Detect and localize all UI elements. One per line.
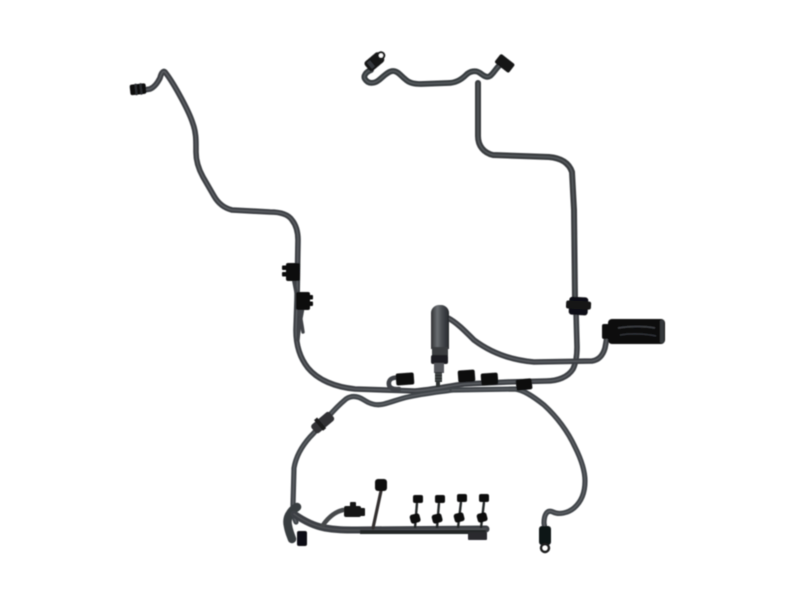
wire: T-branch vertical down from top-center — [478, 83, 575, 300]
wire: top-center horizontal tube — [364, 65, 500, 84]
connector: top-left black end cap — [129, 83, 146, 96]
clip: center clip C — [481, 372, 499, 385]
clip: small black clip below elbow — [297, 531, 307, 546]
wire: short crossing stub near clips — [292, 272, 303, 332]
injector connector 2 — [431, 495, 445, 528]
clip: center clip A with hook — [389, 378, 399, 390]
clip: upper clip on left vertical tube — [282, 263, 300, 281]
injector connector 1 — [409, 495, 423, 528]
clip: lower clip on left vertical tube — [296, 292, 313, 310]
wire: second crossing stub — [298, 298, 305, 340]
fitting: small ribbed fitting on rail branch — [323, 510, 343, 525]
wire: loop right end connector — [539, 526, 551, 552]
rail: dark underside bar — [360, 530, 486, 534]
connector: top-center left with eyelet — [363, 51, 385, 72]
injector connector 4 — [476, 494, 489, 528]
clip: center clip D — [516, 378, 533, 391]
connector: big black right connector — [602, 324, 611, 339]
wire: diagonal from cylinder to right connector — [448, 318, 607, 362]
wire: loop left side tube with sleeve — [293, 390, 452, 522]
cylinder: vertical canister — [431, 305, 449, 349]
rail: right end tab — [468, 532, 487, 540]
wire: top-left tube long run into main harness — [144, 71, 577, 391]
injector connector 3 — [453, 494, 467, 528]
connector: top-center right angled — [494, 54, 515, 74]
fitting: bottom-left elbow — [287, 507, 297, 539]
wire: injector rail — [294, 514, 486, 530]
stem: tall injector stem with cap — [373, 491, 381, 528]
clip: clip on right vertical tube — [566, 296, 592, 315]
clip: center clip B — [458, 369, 476, 382]
wire: loop right side descending to ring terminal — [452, 389, 585, 529]
sleeve: in-line connector on loop left tube — [309, 409, 336, 435]
